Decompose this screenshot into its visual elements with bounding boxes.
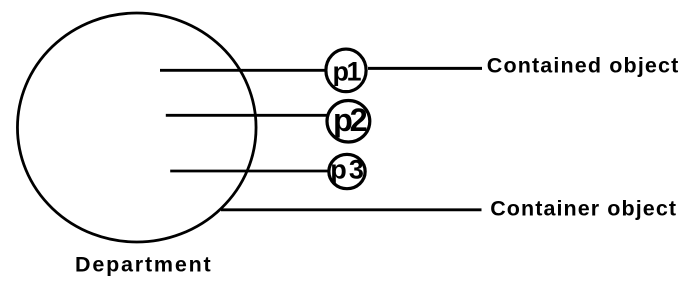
node p1 circle bbox=[326, 49, 366, 92]
wire p1 left bbox=[160, 69, 326, 72]
wire p3 bbox=[170, 170, 328, 173]
wire container bbox=[221, 208, 482, 211]
department ellipse bbox=[17, 13, 256, 242]
svg-text:p1: p1 bbox=[333, 56, 362, 86]
svg-text:Container object: Container object bbox=[490, 197, 677, 221]
svg-text:Contained object: Contained object bbox=[487, 54, 680, 78]
node p2 circle bbox=[327, 101, 370, 143]
wire p1 right bbox=[368, 67, 482, 70]
node p3 circle bbox=[329, 154, 365, 188]
svg-text:Department: Department bbox=[75, 252, 212, 276]
svg-text:p2: p2 bbox=[333, 102, 367, 138]
wire p2 bbox=[166, 114, 328, 117]
svg-text:p3: p3 bbox=[330, 154, 366, 184]
